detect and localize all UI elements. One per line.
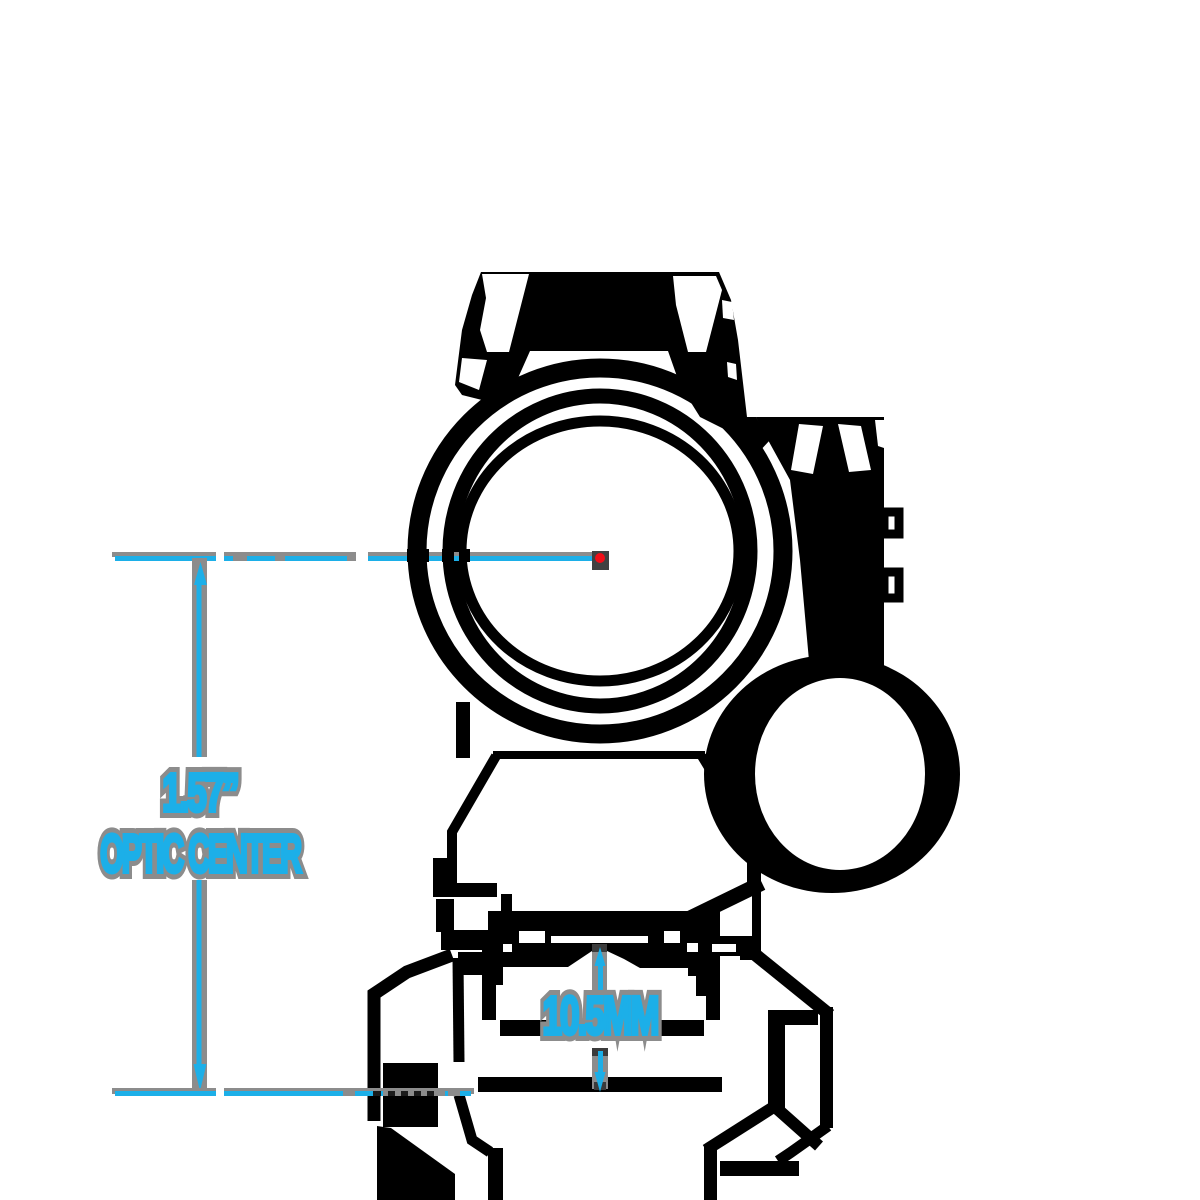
gray bottom horizontal line (112, 1088, 474, 1094)
right tabs (884, 512, 899, 534)
slot walls lower (488, 1148, 503, 1200)
rail band D (478, 1077, 722, 1092)
svg-text:1.57”: 1.57” (162, 762, 238, 823)
body bottom-left band (433, 883, 497, 897)
windage knob block (right) (756, 417, 899, 672)
connector bar above rail (501, 894, 512, 911)
rail band C (500, 1020, 704, 1036)
left slot wall upper (482, 944, 503, 1020)
svg-text:OPTIC CENTER: OPTIC CENTER (100, 824, 301, 884)
body left slant (452, 756, 496, 888)
labels (100, 762, 657, 1046)
right body vertical bar (752, 870, 761, 960)
hood left stripes (white) (480, 274, 529, 352)
rail band left arm (441, 930, 497, 950)
body right slant (702, 756, 752, 893)
10.5MM arrows (592, 944, 607, 991)
vertical dimension line gray (192, 558, 207, 757)
body bottom-right slanted band (684, 883, 762, 921)
hood (top cover) (455, 272, 770, 455)
body horizontal line (493, 751, 705, 759)
white slots in rail top (496, 931, 736, 1020)
gray top horizontal line (112, 552, 600, 557)
vertical cyan shaft + arrows (197, 583, 202, 757)
hood right stripes (white) (673, 276, 722, 352)
right body corner block (740, 940, 754, 960)
main objective rings (417, 368, 783, 734)
elevation knob (bottom right) (704, 655, 960, 893)
small white dashes at bottom (806, 661, 826, 669)
red dot sight front-view technical drawing (374, 272, 960, 1200)
cyan bottom horizontal line (115, 1091, 471, 1096)
cyan top horizontal line (115, 556, 597, 561)
rail top mass with picatinny slot (488, 911, 720, 1020)
right clamp jaw (706, 1007, 833, 1176)
white stripes on windage top (791, 424, 823, 474)
left jaw top corner block (458, 952, 482, 975)
rail band right arm (695, 936, 760, 956)
left ear frame column (436, 899, 454, 932)
left clamp jaw (374, 955, 490, 1200)
center dark square + red dot (592, 551, 609, 570)
left body edge below circle (456, 702, 470, 758)
svg-text:10.5MM: 10.5MM (542, 985, 657, 1045)
dimension overlay (112, 549, 609, 1098)
diagonal brace to right jaw (752, 952, 830, 1015)
